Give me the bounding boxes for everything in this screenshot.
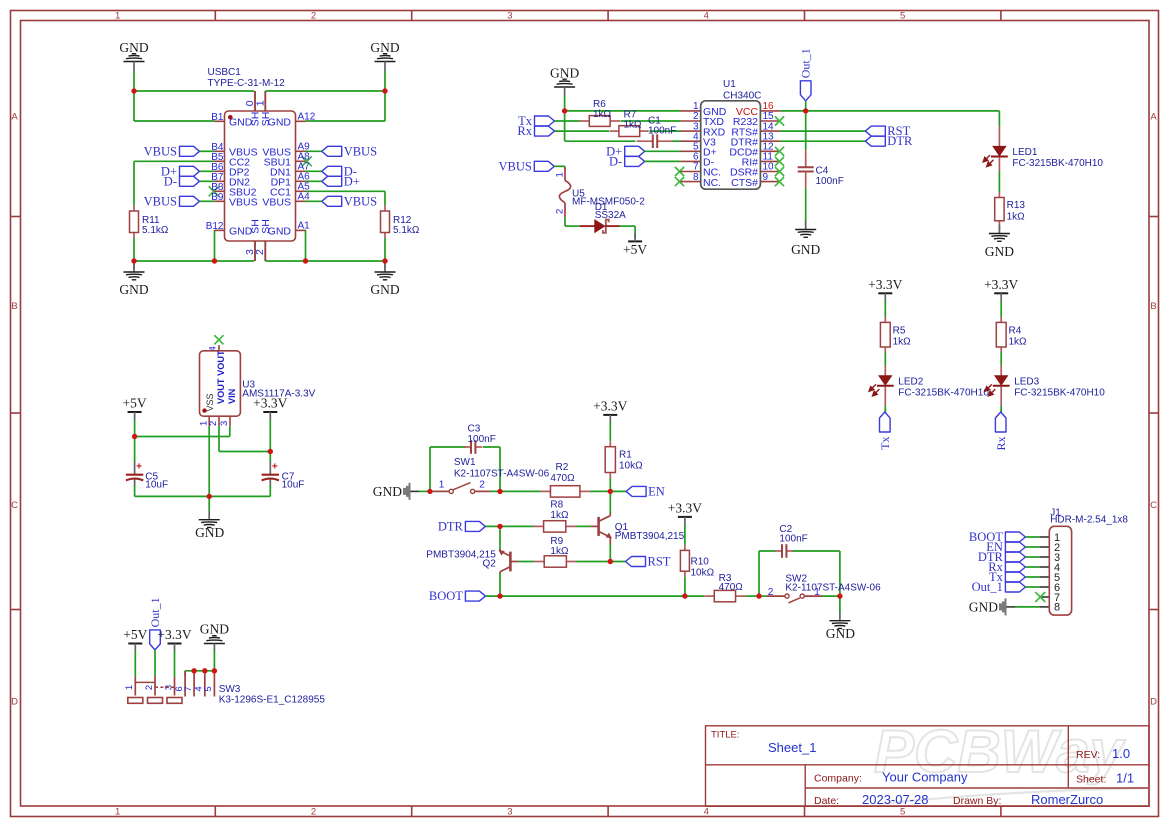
resistor R4 xyxy=(1000,317,1002,323)
svg-text:VBUS: VBUS xyxy=(144,194,177,208)
svg-text:SW1: SW1 xyxy=(454,457,476,468)
svg-text:9: 9 xyxy=(763,172,769,183)
svg-text:B: B xyxy=(1150,301,1156,312)
svg-text:VBUS: VBUS xyxy=(144,144,177,158)
net flag Rx (bottom) xyxy=(995,412,1006,432)
wire CC2 net xyxy=(134,160,215,162)
wire Q1 emitter to RST xyxy=(609,544,611,562)
svg-text:+3.3V: +3.3V xyxy=(668,500,702,515)
no-connect A8 xyxy=(302,156,312,166)
wire VSS down xyxy=(208,426,210,497)
wire DTR row xyxy=(485,525,533,527)
svg-text:GND: GND xyxy=(826,626,855,641)
wire +3.3V to R5 xyxy=(884,301,886,317)
junction xyxy=(212,258,217,263)
wire DTR to Q2 emitter xyxy=(499,526,501,550)
svg-text:Company:: Company: xyxy=(814,773,862,785)
svg-text:1: 1 xyxy=(115,10,120,21)
svg-text:B9: B9 xyxy=(211,192,224,203)
wire C7 to rail xyxy=(269,485,271,496)
wire GND to SW3 pins xyxy=(213,651,215,671)
svg-text:A: A xyxy=(1150,112,1157,123)
switch SW2 K2-1107ST-A4SW-06 xyxy=(759,595,767,597)
junction xyxy=(562,108,567,113)
net flag D+ (U1) xyxy=(625,146,645,156)
wire R4 to LED3 xyxy=(1000,353,1002,366)
net flag RST xyxy=(865,126,885,136)
svg-text:D: D xyxy=(1150,697,1157,708)
junction xyxy=(803,108,808,113)
svg-text:SH: SH xyxy=(260,219,272,234)
wire top GND rail right xyxy=(265,90,385,92)
svg-text:5: 5 xyxy=(900,10,905,21)
svg-text:1.0: 1.0 xyxy=(1112,746,1130,761)
svg-text:Your Company: Your Company xyxy=(882,770,968,785)
wire D1 to +5V xyxy=(620,225,636,227)
svg-text:100nF: 100nF xyxy=(816,176,844,187)
wire R2 to EN junction xyxy=(590,490,626,492)
wire A12 to rail xyxy=(384,91,386,121)
net flag EN (J1 pin 2) xyxy=(1005,542,1025,552)
wire R8 to Q1 base xyxy=(576,525,591,527)
svg-text:1kΩ: 1kΩ xyxy=(893,337,912,348)
svg-text:5.1kΩ: 5.1kΩ xyxy=(393,225,420,236)
svg-text:VIN: VIN xyxy=(227,388,237,404)
wire GND-right vertical xyxy=(384,71,386,91)
svg-text:VOUT VOUT: VOUT VOUT xyxy=(216,350,226,404)
resistor R12 xyxy=(384,206,386,212)
svg-text:Date:: Date: xyxy=(814,795,839,807)
net flag Out_1 (J1 pin 6) xyxy=(1005,582,1025,592)
net flag VBUS (B4) xyxy=(180,146,200,156)
net flag DTR (left) xyxy=(465,521,485,531)
net flag BOOT (J1 pin 1) xyxy=(1005,532,1025,542)
junction xyxy=(608,559,613,564)
svg-text:8: 8 xyxy=(1054,602,1060,614)
svg-text:2: 2 xyxy=(311,10,316,21)
wire VCC rail xyxy=(780,110,999,112)
svg-text:TYPE-C-31-M-12: TYPE-C-31-M-12 xyxy=(208,78,286,89)
svg-text:SS32A: SS32A xyxy=(595,210,626,221)
svg-text:VBUS: VBUS xyxy=(262,197,291,209)
wire GND-left vertical xyxy=(133,71,135,91)
net flag RST (Q1) xyxy=(626,557,646,567)
wire LED3 to Rx flag xyxy=(1000,409,1002,412)
svg-text:2: 2 xyxy=(311,806,316,817)
svg-text:D-: D- xyxy=(609,154,622,168)
svg-text:BOOT: BOOT xyxy=(429,589,463,603)
wire R3 to SW2 xyxy=(746,595,761,597)
svg-text:R2: R2 xyxy=(556,462,569,473)
junction xyxy=(131,258,136,263)
voltage regulator U3 AMS1117A-3.3V xyxy=(218,345,220,351)
wire R7 to U1 pin3 xyxy=(650,130,681,132)
wire A7 xyxy=(306,170,322,172)
wire +3.3V vertical xyxy=(269,420,271,462)
no-connect B8 xyxy=(209,186,219,196)
net flag Tx (bottom) xyxy=(880,412,891,432)
svg-text:2: 2 xyxy=(479,480,485,491)
capacitor C7 xyxy=(269,462,271,475)
junction xyxy=(608,489,613,494)
svg-text:1kΩ: 1kΩ xyxy=(550,510,569,521)
wire D+ to pin5 xyxy=(645,150,681,152)
resistor R5 xyxy=(884,317,886,323)
svg-text:R5: R5 xyxy=(893,326,906,337)
svg-text:R8: R8 xyxy=(550,500,563,511)
ground GND (below R13) xyxy=(998,225,1000,234)
svg-text:Sheet:: Sheet: xyxy=(1076,774,1106,786)
title block xyxy=(706,726,1150,807)
wire +3.3V to R1 xyxy=(609,423,611,442)
svg-text:CH340C: CH340C xyxy=(723,91,761,102)
resistor R3 xyxy=(704,595,714,597)
svg-text:1kΩ: 1kΩ xyxy=(550,546,569,557)
svg-text:2: 2 xyxy=(254,249,266,255)
switch SW1 K2-1107ST-A4SW-06 xyxy=(434,490,450,492)
net flag D- (U1) xyxy=(625,156,645,166)
svg-text:+3.3V: +3.3V xyxy=(984,277,1018,292)
svg-text:Out_1: Out_1 xyxy=(148,597,162,627)
ground GND (bottom right of USBC1) xyxy=(384,261,386,269)
wire R5 to LED2 xyxy=(884,353,886,366)
capacitor C4 xyxy=(805,150,807,167)
wire LED2 to Tx flag xyxy=(884,409,886,412)
svg-text:R1: R1 xyxy=(619,450,632,461)
svg-text:EN: EN xyxy=(648,484,665,498)
svg-text:SH: SH xyxy=(260,112,272,127)
no-connect U1 pin7 xyxy=(675,167,684,176)
IC U1 CH340C xyxy=(681,110,701,112)
svg-text:1: 1 xyxy=(555,172,566,177)
svg-text:GND: GND xyxy=(969,599,998,614)
svg-text:LED3: LED3 xyxy=(1014,377,1039,388)
wire R11 to bottom rail xyxy=(133,238,135,261)
svg-text:D: D xyxy=(11,697,18,708)
power +5V (SW3 pin1) xyxy=(128,643,142,645)
wire U1 pin1 GND xyxy=(565,110,681,112)
wire A4 xyxy=(306,200,322,202)
svg-text:10uF: 10uF xyxy=(145,480,168,491)
svg-text:1: 1 xyxy=(124,685,135,690)
net flag Out_1 (top) xyxy=(800,81,811,101)
svg-text:GND: GND xyxy=(119,282,148,297)
svg-text:VBUS: VBUS xyxy=(498,159,531,173)
svg-text:Sheet_1: Sheet_1 xyxy=(768,740,816,755)
svg-text:3: 3 xyxy=(219,421,230,426)
capacitor C3 xyxy=(464,446,471,448)
connector USBC1 TYPE-C-31-M-12 xyxy=(215,120,225,122)
junction xyxy=(837,593,842,598)
net flag Tx xyxy=(535,116,555,126)
wire J1 pin 3 xyxy=(1025,556,1039,558)
svg-text:GND: GND xyxy=(373,484,402,499)
svg-text:1kΩ: 1kΩ xyxy=(1009,337,1028,348)
wire J1 pin 6 xyxy=(1025,586,1039,588)
net flag DTR (J1 pin 3) xyxy=(1005,552,1025,562)
svg-text:1: 1 xyxy=(115,806,120,817)
wire B6 xyxy=(200,170,215,172)
svg-text:470Ω: 470Ω xyxy=(719,582,744,593)
capacitor C5 xyxy=(134,462,136,475)
junction xyxy=(497,524,502,529)
net flag VBUS (B9) xyxy=(180,196,200,206)
svg-text:10kΩ: 10kΩ xyxy=(619,461,643,472)
svg-text:Q2: Q2 xyxy=(482,559,496,570)
svg-text:RST: RST xyxy=(648,555,671,569)
wire CC1 net xyxy=(306,190,386,192)
net flag VBUS (A4) xyxy=(322,196,342,206)
net flag D+ (B6) xyxy=(180,166,200,176)
wire C3 right branch xyxy=(483,446,500,448)
svg-text:3: 3 xyxy=(507,10,512,21)
svg-text:3: 3 xyxy=(507,806,512,817)
wire rail to GND xyxy=(208,496,210,511)
svg-text:LED2: LED2 xyxy=(898,377,923,388)
svg-text:10uF: 10uF xyxy=(282,480,305,491)
net flag Rx xyxy=(535,126,555,136)
resistor R13 xyxy=(998,192,1000,198)
wire J1 pin 4 xyxy=(1025,566,1039,568)
svg-text:K2-1107ST-A4SW-06: K2-1107ST-A4SW-06 xyxy=(454,468,550,479)
wire +5V to SW3 pin1 xyxy=(134,651,136,677)
no-connect U1 pin8 xyxy=(675,177,684,186)
resistor R7 xyxy=(610,130,619,132)
power +3.3V (above R4) xyxy=(994,292,1008,294)
wire U1 pin13 to DTR xyxy=(780,140,865,142)
power +3.3V (C7) xyxy=(263,411,277,413)
no-connect U3 pin4 xyxy=(214,335,223,344)
junction xyxy=(382,258,387,263)
svg-text:Out_1: Out_1 xyxy=(799,48,813,78)
net flag VBUS (A9) xyxy=(322,146,342,156)
wire GND to pin1 rail xyxy=(564,96,566,111)
net flag Rx (J1 pin 4) xyxy=(1005,562,1025,572)
no-connect U1 pin15 xyxy=(775,116,784,125)
wire C5-C7 ground rail xyxy=(135,495,271,497)
svg-text:2023-07-28: 2023-07-28 xyxy=(862,792,929,807)
svg-text:FC-3215BK-470H10: FC-3215BK-470H10 xyxy=(1014,387,1105,398)
wire GND tag to SW1 xyxy=(419,490,434,492)
wire VCC to LED1 xyxy=(998,111,1000,127)
wire Q1 collector xyxy=(609,491,611,513)
ground GND (below U3) xyxy=(208,511,210,520)
wire SW3 common rail xyxy=(185,670,214,672)
wire A1 down xyxy=(305,230,307,261)
svg-text:D-: D- xyxy=(164,174,177,188)
svg-text:2: 2 xyxy=(768,587,774,598)
svg-text:U1: U1 xyxy=(723,79,736,90)
svg-text:VBUS: VBUS xyxy=(344,194,377,208)
svg-text:VBUS: VBUS xyxy=(229,197,258,209)
svg-text:LED1: LED1 xyxy=(1012,147,1037,158)
svg-text:4: 4 xyxy=(704,806,709,817)
svg-text:2: 2 xyxy=(208,421,219,426)
svg-text:1kΩ: 1kΩ xyxy=(1007,212,1026,223)
svg-text:A4: A4 xyxy=(298,192,311,203)
no-connect U1 pin12 xyxy=(775,147,784,156)
wire +3.3V to R4 xyxy=(1000,301,1002,317)
wire Q2 collector to BOOT xyxy=(499,573,501,596)
junction xyxy=(427,489,432,494)
wire VCC to C4 xyxy=(805,111,807,150)
junction xyxy=(131,88,136,93)
resistor R2 xyxy=(540,490,550,492)
junction xyxy=(207,494,212,499)
net flag VBUS (U5) xyxy=(534,161,554,171)
wire B12 down xyxy=(214,230,216,261)
transistor Q1 PMBT3904,215 xyxy=(591,512,611,545)
junction xyxy=(497,593,502,598)
wire R10 to BOOT xyxy=(684,577,686,596)
svg-text:100nF: 100nF xyxy=(779,534,807,545)
connector J1 HDR-M-2.54_1x8 xyxy=(1039,536,1049,538)
net flag DTR (U1) xyxy=(865,136,885,146)
resistor R6 xyxy=(579,120,589,122)
wire C2 right branch xyxy=(793,550,840,552)
wire R1 to EN xyxy=(609,478,611,491)
wire B7 xyxy=(200,180,215,182)
svg-text:GND: GND xyxy=(370,282,399,297)
wire B9 xyxy=(200,200,215,202)
wire Out_1 to SW3 pin2 xyxy=(154,650,156,677)
junction xyxy=(756,593,761,598)
svg-text:C: C xyxy=(11,500,18,511)
svg-text:K2-1107ST-A4SW-06: K2-1107ST-A4SW-06 xyxy=(785,583,881,594)
wire Out_1 stub xyxy=(805,101,807,111)
wire J1 pin8 xyxy=(1015,606,1039,608)
svg-text:RomerZurco: RomerZurco xyxy=(1031,792,1103,807)
svg-text:A: A xyxy=(11,112,18,123)
wire GND vertical to C1 xyxy=(564,111,566,141)
wire D- to pin6 xyxy=(645,160,681,162)
svg-text:+5V: +5V xyxy=(623,242,647,257)
power +3.3V (SW3 pin3) xyxy=(168,643,182,645)
junction xyxy=(303,258,308,263)
wire C5 to rail xyxy=(134,485,136,496)
svg-text:+: + xyxy=(272,461,278,472)
junction xyxy=(268,449,273,454)
wire C3 left branch xyxy=(429,447,431,491)
power +3.3V (above R5) xyxy=(878,292,892,294)
svg-text:DTR: DTR xyxy=(887,134,913,148)
wire B1 to rail xyxy=(133,91,135,121)
resistor R10 xyxy=(684,545,686,551)
wire VOUT to +3.3V xyxy=(218,426,220,452)
svg-text:B1: B1 xyxy=(211,112,224,123)
no-connect U1 pin9 xyxy=(775,177,784,186)
svg-text:D+: D+ xyxy=(344,174,360,188)
svg-text:Out_1: Out_1 xyxy=(972,580,1003,594)
svg-text:K3-1296S-E1_C128955: K3-1296S-E1_C128955 xyxy=(219,694,326,705)
svg-text:GND: GND xyxy=(119,40,148,55)
svg-text:1kΩ: 1kΩ xyxy=(593,109,612,120)
junction xyxy=(132,434,137,439)
wire SW1 to R2 xyxy=(491,490,541,492)
LED LED3 FC-3215BK-470H10 xyxy=(1000,366,1002,376)
net flag EN xyxy=(626,486,646,496)
svg-text:+: + xyxy=(136,461,142,472)
net flag D- (B7) xyxy=(180,176,200,186)
svg-text:2: 2 xyxy=(144,685,155,690)
junction xyxy=(497,489,502,494)
svg-text:Tx: Tx xyxy=(878,437,892,450)
svg-text:C3: C3 xyxy=(468,424,481,435)
wire J1 pin 1 xyxy=(1025,536,1039,538)
svg-text:100nF: 100nF xyxy=(648,126,676,137)
net flag D- (A7) xyxy=(322,166,342,176)
no-connect U1 pin11 xyxy=(775,157,784,166)
net flag Tx (J1 pin 5) xyxy=(1005,572,1025,582)
svg-text:R10: R10 xyxy=(691,557,710,568)
power +5V (C5) xyxy=(128,411,142,413)
wire LED1 to R13 xyxy=(998,171,1000,192)
svg-text:10kΩ: 10kΩ xyxy=(691,568,715,579)
svg-text:GND: GND xyxy=(200,622,229,637)
LED LED1 FC-3215BK-470H10 xyxy=(998,126,1000,146)
wire R13 to GND xyxy=(998,226,1000,230)
svg-text:5.1kΩ: 5.1kΩ xyxy=(142,225,169,236)
wire +3.3V to R10 xyxy=(684,525,686,545)
wire +5V vertical xyxy=(134,420,136,462)
svg-text:VBUS: VBUS xyxy=(344,144,377,158)
svg-text:GND: GND xyxy=(550,66,579,81)
wire U5 to D1 xyxy=(564,217,566,226)
svg-text:+3.3V: +3.3V xyxy=(593,398,627,413)
diode D1 SS32A xyxy=(580,225,595,227)
svg-text:GND: GND xyxy=(791,242,820,257)
wire bottom GND rail left xyxy=(134,260,254,262)
wire J1 pin 5 xyxy=(1025,576,1039,578)
ground GND (below C4) xyxy=(805,221,807,230)
net flag BOOT xyxy=(465,591,485,601)
svg-text:2: 2 xyxy=(555,209,566,214)
svg-text:FC-3215BK-470H10: FC-3215BK-470H10 xyxy=(1012,158,1103,169)
wire Rx to R7 xyxy=(555,130,610,132)
LED LED2 FC-3215BK-470H10 xyxy=(884,366,886,376)
wire C1 to U1 pin4 xyxy=(673,140,681,142)
wire +3.3V to SW3 pin3 xyxy=(174,651,176,677)
svg-text:VSS: VSS xyxy=(205,393,215,411)
switch SW3 K3-1296S-E1_C128955 xyxy=(134,677,136,696)
svg-text:PMBT3904,215: PMBT3904,215 xyxy=(615,531,685,542)
ground GND (bottom left of USBC1) xyxy=(133,261,135,269)
svg-text:MF-MSMF050-2: MF-MSMF050-2 xyxy=(572,197,645,208)
svg-text:+3.3V: +3.3V xyxy=(157,627,191,642)
svg-text:FC-3215BK-470H10: FC-3215BK-470H10 xyxy=(898,387,989,398)
svg-text:5: 5 xyxy=(203,686,214,691)
svg-text:USBC1: USBC1 xyxy=(208,67,242,78)
svg-text:C: C xyxy=(1150,500,1157,511)
net flag D+ (A6) xyxy=(322,176,342,186)
svg-text:5: 5 xyxy=(900,806,905,817)
wire SW2 to GND xyxy=(839,596,841,612)
no-connect U1 pin10 xyxy=(775,167,784,176)
resistor R1 xyxy=(609,441,611,447)
wire J1 pin 2 xyxy=(1025,546,1039,548)
wire B4 xyxy=(200,150,215,152)
svg-text:1: 1 xyxy=(254,100,266,106)
wire R9 to RST junction xyxy=(576,561,625,563)
svg-text:8: 8 xyxy=(693,172,699,183)
wire R6 to U1 pin2 xyxy=(621,120,681,122)
junction xyxy=(212,668,217,673)
svg-text:HDR-M-2.54_1x8: HDR-M-2.54_1x8 xyxy=(1050,515,1128,526)
ground GND (below SW2) xyxy=(839,612,841,621)
svg-text:1: 1 xyxy=(439,480,445,491)
no-connect J1 pin7 xyxy=(1035,592,1045,602)
resistor R9 xyxy=(534,561,544,563)
